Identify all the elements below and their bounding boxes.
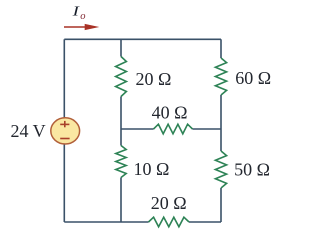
wire: left branch lower segment bbox=[63, 144, 65, 222]
wire: middle branch above 20-ohm resistor bbox=[120, 39, 122, 56]
svg-text:60 Ω: 60 Ω bbox=[235, 68, 271, 88]
resistor 20 ohm (bottom horizontal) bbox=[149, 217, 190, 227]
resistor 20 ohm (top of middle branch) bbox=[116, 57, 127, 97]
voltage source minus sign bbox=[60, 138, 69, 140]
wire: left branch upper segment bbox=[63, 39, 65, 117]
wire: right branch between 60-ohm and 50-ohm resistors bbox=[220, 95, 222, 151]
wire: bottom net left of 20-ohm resistor bbox=[64, 221, 148, 223]
resistor 40 ohm (middle horizontal) bbox=[154, 124, 193, 134]
svg-text:50 Ω: 50 Ω bbox=[234, 160, 270, 180]
resistor 60 ohm (top of right branch) bbox=[215, 58, 226, 95]
wire: middle branch below 10-ohm resistor bbox=[120, 178, 122, 223]
voltage source V1 24 V (circle body) bbox=[51, 118, 80, 144]
label: current Io bbox=[71, 3, 85, 22]
resistor 10 ohm (bottom of middle branch) bbox=[116, 146, 126, 178]
wire: top horizontal net bbox=[64, 38, 221, 40]
svg-text:I: I bbox=[71, 3, 80, 19]
svg-text:40 Ω: 40 Ω bbox=[152, 103, 188, 123]
wire: right branch below 50-ohm resistor bbox=[220, 188, 222, 222]
resistor 50 ohm (bottom of right branch) bbox=[215, 151, 226, 188]
wire: right branch above 60-ohm resistor bbox=[220, 39, 222, 58]
wire: middle horizontal net left of 40-ohm resistor bbox=[121, 128, 154, 130]
svg-text:20 Ω: 20 Ω bbox=[136, 69, 172, 89]
svg-text:10 Ω: 10 Ω bbox=[134, 159, 170, 179]
voltage source plus sign bbox=[60, 121, 69, 127]
svg-text:24 V: 24 V bbox=[11, 121, 46, 141]
wire: middle horizontal net right of 40-ohm resistor bbox=[193, 128, 222, 130]
svg-text:20 Ω: 20 Ω bbox=[151, 193, 187, 213]
wire: bottom net right of 20-ohm resistor bbox=[189, 221, 221, 223]
svg-text:o: o bbox=[80, 11, 85, 22]
wire: middle branch between 20-ohm and 10-ohm resistors bbox=[120, 97, 122, 146]
current arrow Io (shaft and head) bbox=[64, 24, 99, 30]
